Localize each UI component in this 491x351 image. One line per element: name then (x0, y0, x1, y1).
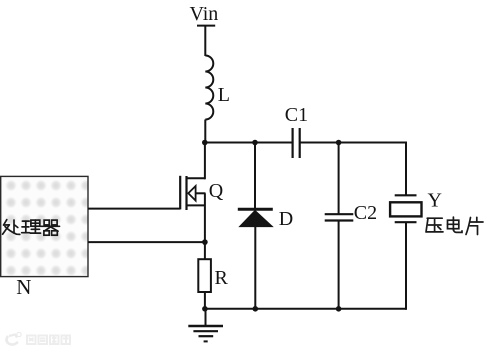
svg-text:D: D (279, 208, 293, 230)
piezo Y top plate (395, 194, 417, 196)
diode D triangle (240, 211, 273, 227)
wire processor to Q gate (88, 208, 180, 210)
piezo Y body rectangle (390, 202, 421, 216)
node A junction dot (L / Q drain / rail) (202, 140, 208, 146)
processor box (1, 176, 88, 276)
ground (188, 326, 223, 341)
wire ground stem (205, 309, 207, 326)
watermark logo (7, 332, 22, 344)
node S junction dot (source / processor / R) (202, 239, 208, 245)
MOSFET Q gate bar (179, 176, 181, 210)
wire L to node A (204, 120, 206, 144)
压 (427, 217, 442, 219)
MOSFET Q channel bar (185, 176, 187, 210)
器 (44, 220, 49, 225)
MOSFET Q body arrow (188, 186, 195, 201)
MOSFET Q source stub (187, 204, 206, 206)
node G junction dot (R / bottom rail / ground) (202, 306, 208, 312)
理 (22, 220, 29, 222)
svg-text:C2: C2 (354, 202, 377, 224)
wire Vin terminal to inductor L (204, 26, 206, 56)
wire node S to resistor R (204, 242, 206, 259)
capacitor C2 bottom plate (325, 219, 354, 221)
wire resistor R to ground node (204, 292, 206, 310)
capacitor C1 left plate (292, 128, 294, 158)
node junction dot C2 bottom on bottom rail (336, 306, 342, 312)
MOSFET Q drain stub (187, 177, 206, 179)
MOSFET Q drain wire up to node A (204, 143, 206, 180)
wire diode D to bottom rail (254, 226, 256, 309)
svg-text:N: N (16, 275, 31, 299)
svg-text:Q: Q (209, 180, 224, 202)
node junction dot diode branch on top rail (252, 140, 258, 146)
inductor L (205, 56, 213, 120)
bottom rail wire (205, 308, 406, 310)
wire Y branch from top rail corner down (405, 142, 407, 196)
resistor R body (198, 259, 211, 292)
svg-text:Y: Y (428, 190, 442, 212)
处 (4, 220, 7, 225)
wire Q source down to node S (204, 193, 206, 243)
wire top rail C1 right plate to Y corner (300, 142, 406, 144)
node junction dot C2 branch on top rail (336, 140, 342, 146)
piezo Y bottom plate (395, 221, 417, 223)
wire processor to node S (88, 241, 206, 243)
电 (448, 220, 459, 229)
capacitor C2 top plate (325, 213, 354, 215)
wire C2 bottom to bottom rail (338, 221, 340, 309)
svg-text:C1: C1 (285, 104, 308, 126)
terminal Vin bar (197, 25, 215, 27)
svg-text:R: R (215, 267, 229, 289)
label 处理器 (hand-drawn glyphs) (3, 220, 60, 236)
片 (466, 218, 471, 235)
node junction dot diode anode on bottom rail (253, 306, 259, 312)
MOSFET Q body lead (196, 192, 206, 194)
svg-text:Vin: Vin (190, 3, 219, 25)
wire top rail node A to C1 left plate (204, 142, 292, 144)
wire Y bottom to bottom rail corner (405, 222, 407, 310)
label 压电片 (hand-drawn glyphs) (426, 217, 483, 234)
diode D anode-cathode wire from top rail (254, 143, 256, 209)
wire C2 top from top rail (338, 143, 340, 215)
svg-text:L: L (218, 84, 230, 106)
diode D cathode bar (238, 208, 273, 211)
watermark text (27, 336, 70, 345)
capacitor C1 right plate (299, 128, 301, 158)
